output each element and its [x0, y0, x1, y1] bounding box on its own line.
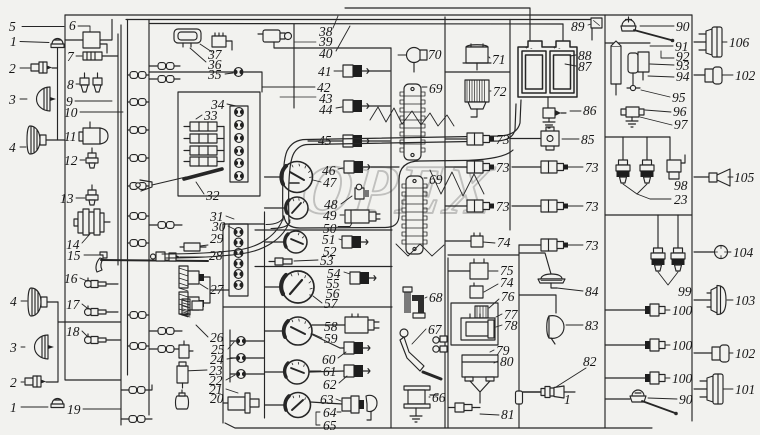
wire foglamp4b [47, 301, 58, 303]
fuse 89 [591, 18, 602, 28]
speedo cable zigzag top [370, 107, 454, 126]
wire center divider x510 [509, 20, 511, 231]
switch 20/21 [223, 393, 259, 413]
lamp 1 bottom [51, 399, 64, 408]
dome lamp 83 [547, 316, 564, 344]
harness curve outer [283, 100, 521, 220]
wire bottom frame [225, 423, 652, 428]
wire right frame [691, 15, 693, 421]
connector 100 c [645, 372, 665, 384]
brake valve 14 [74, 209, 110, 235]
svg-text:82: 82 [583, 354, 597, 369]
connector 81 [448, 403, 480, 412]
wire gauge panel top [223, 223, 265, 225]
connector 73 row2 [467, 161, 494, 173]
connector 48 [355, 184, 369, 199]
wire cluster vertical x515 [518, 255, 520, 391]
connector 60 [344, 342, 370, 354]
svg-text:2: 2 [10, 375, 17, 390]
svg-text:73: 73 [496, 199, 510, 214]
svg-text:5: 5 [9, 19, 16, 34]
switch lever 15 [96, 252, 107, 272]
wire 46 stub [371, 166, 399, 168]
wire gauge row divider y266 [255, 266, 392, 268]
wire lamp4 to trunk [46, 139, 58, 141]
spark plug 27 top [179, 266, 204, 291]
washer pump 66 [404, 386, 438, 422]
harness curve to left panel b [166, 220, 290, 258]
buzzer 95 [627, 85, 640, 90]
svg-text:73: 73 [585, 199, 599, 214]
sensor 18 [85, 334, 107, 344]
wire 45 row [308, 140, 343, 142]
wire trunk x118 [117, 34, 119, 265]
connector strip 34 lamps [235, 108, 244, 181]
sensor 17 [85, 306, 107, 316]
svg-text:8: 8 [67, 77, 74, 92]
gauge 54-57 tachometer [281, 271, 314, 303]
disconnect switch 86 [543, 108, 566, 128]
spark plug 27 bottom [179, 292, 204, 317]
svg-text:98: 98 [674, 178, 688, 193]
flasher 22 [179, 341, 193, 358]
wire right column inner edge [604, 15, 606, 428]
connector strip 27-31 lamps [234, 228, 243, 290]
svg-text:74: 74 [497, 235, 511, 250]
svg-text:97: 97 [674, 117, 689, 132]
washer jar 20 [176, 390, 189, 409]
connector 73 row3 [467, 200, 494, 212]
svg-text:74: 74 [500, 275, 514, 290]
solenoid 98 c [667, 155, 685, 179]
wire trunk x121 [120, 25, 122, 380]
battery 87/88 [518, 41, 577, 97]
svg-text:100: 100 [672, 338, 693, 353]
wire gauge to 58 [312, 324, 345, 326]
connector 2 top [31, 62, 52, 73]
wire sub box line [150, 23, 563, 26]
svg-text:103: 103 [735, 293, 756, 308]
svg-text:3: 3 [8, 92, 16, 107]
wire 40 top [562, 24, 564, 40]
svg-text:95: 95 [672, 90, 686, 105]
wire lamp bus to box [58, 321, 121, 323]
fuel sensor 99 b [671, 248, 685, 271]
svg-text:70: 70 [428, 47, 442, 62]
connector col2 y66 [158, 63, 174, 70]
svg-text:73: 73 [585, 160, 599, 175]
svg-text:11: 11 [64, 129, 77, 144]
gear column 69 bottom [402, 176, 427, 254]
connector 41 [343, 65, 369, 77]
svg-text:69: 69 [429, 81, 443, 96]
valve 8 left [80, 73, 89, 92]
wire conn2 to trunk [52, 67, 58, 69]
indicator lamp 24 [237, 370, 246, 379]
wire gauge feeds [265, 176, 282, 178]
svg-text:90: 90 [676, 19, 690, 34]
svg-text:71: 71 [492, 52, 506, 67]
harness return loop [284, 150, 513, 228]
horn 105 [694, 169, 730, 186]
svg-text:4: 4 [9, 140, 16, 155]
connector trunk y75 [130, 72, 146, 79]
svg-text:3: 3 [9, 340, 17, 355]
fuel tank sender 90 bottom [630, 390, 678, 415]
relay 92 [628, 53, 638, 85]
wire right box top feeds [605, 42, 650, 44]
fuse 29 [180, 243, 206, 251]
svg-text:85: 85 [581, 132, 595, 147]
lamp 102 bottom [694, 345, 729, 362]
valve 8 right [93, 73, 102, 92]
connector 44 [343, 100, 369, 112]
connector 45 [343, 135, 369, 147]
svg-text:89: 89 [571, 19, 585, 34]
headlamp 3 bottom [35, 335, 55, 359]
connector 55/56 [350, 272, 376, 284]
harness curve to left panel a [162, 216, 284, 254]
wire gauge row divider y307 [223, 306, 392, 308]
connector 74 top [471, 233, 483, 247]
svg-text:65: 65 [323, 418, 337, 433]
svg-text:81: 81 [501, 407, 515, 422]
svg-text:1: 1 [564, 392, 571, 407]
wire left frame with elbow [65, 15, 121, 425]
connector 51/52 [342, 236, 368, 248]
fuse row 3 [184, 146, 224, 155]
svg-text:100: 100 [672, 303, 693, 318]
gear column 69 top [400, 84, 425, 160]
wire 90 bottom feed [605, 398, 630, 400]
wire trunk x127.5 [127, 20, 129, 376]
connector 73 right row3 [541, 239, 568, 251]
wire gauge feed bus [264, 212, 266, 418]
relay box 58 [345, 314, 379, 333]
plug 36 [174, 29, 201, 47]
svg-text:23: 23 [674, 192, 688, 207]
fuse row 4 [184, 127, 224, 167]
coil 76 [475, 306, 488, 318]
connector trunk y130 [130, 127, 146, 134]
svg-text:106: 106 [729, 35, 750, 50]
connector 62 [344, 365, 370, 377]
svg-text:66: 66 [432, 390, 446, 405]
resistor 93 [638, 52, 649, 80]
connector trunk y186 [130, 183, 146, 190]
lamp 102 top [694, 67, 722, 84]
svg-text:+ -: + - [553, 45, 560, 52]
wire battery bottom to 86 [547, 97, 549, 108]
svg-text:94: 94 [676, 69, 690, 84]
svg-text:18: 18 [66, 324, 80, 339]
long rod 15 [101, 260, 208, 261]
svg-text:12: 12 [64, 153, 78, 168]
svg-text:73: 73 [585, 238, 599, 253]
gauge 58/59 [284, 317, 312, 345]
horn button 90 top [621, 17, 674, 42]
wire sensor stubs to trunk [106, 283, 118, 285]
wire gauge to 60 [311, 334, 344, 348]
plafond 84 [538, 274, 565, 288]
svg-text:73: 73 [496, 132, 510, 147]
wire trunk x149 [148, 20, 150, 416]
valve 96/97 [621, 107, 644, 127]
connector 73 right row2 [541, 200, 568, 212]
fuse row 2 [184, 134, 224, 143]
connector 46 [344, 161, 370, 173]
svg-text:41: 41 [318, 64, 332, 79]
ignition switch 85 [510, 127, 559, 150]
wire center divider x445 [444, 17, 446, 428]
svg-text:73: 73 [496, 160, 510, 175]
connector 100 b [645, 339, 665, 351]
wire top outer frame [65, 14, 692, 16]
heater fan 72 [465, 80, 489, 117]
svg-text:102: 102 [735, 346, 756, 361]
svg-text:15: 15 [67, 248, 81, 263]
svg-text:47: 47 [323, 175, 338, 190]
svg-text:1: 1 [10, 34, 17, 49]
svg-text:4: 4 [10, 294, 17, 309]
tail lamp 106 [694, 27, 722, 57]
wire plugs 27 join [204, 277, 210, 303]
svg-text:1: 1 [10, 400, 17, 415]
svg-text:101: 101 [735, 382, 755, 397]
lamp 35 [234, 68, 243, 77]
gauge 48/49 [286, 197, 308, 219]
svg-text:87: 87 [578, 59, 593, 74]
connector col2 y79 [158, 76, 174, 83]
svg-text:19: 19 [67, 402, 81, 417]
relay box 6 [65, 20, 112, 54]
fuse row 1 [184, 122, 224, 131]
bottom connector box connector b [129, 416, 145, 423]
connector trunk y315 [130, 312, 146, 319]
pedal 67 [400, 329, 447, 379]
wire 74 top [445, 240, 471, 242]
sensor 16 [85, 278, 107, 288]
svg-text:100: 100 [672, 371, 693, 386]
relay 49 [345, 210, 380, 223]
svg-text:104: 104 [733, 245, 754, 260]
ignition unit 79/80 [462, 355, 498, 403]
headlamp 3 top [37, 87, 57, 111]
heater resistor 75 [448, 259, 488, 279]
wire right column divider y215 [605, 214, 692, 216]
wire branch to 83 [519, 295, 556, 313]
connector strip 27-31 box [229, 224, 248, 296]
svg-text:13: 13 [60, 191, 74, 206]
svg-text:83: 83 [585, 318, 599, 333]
relay 37 [212, 33, 232, 50]
wire gauge to 62 [309, 371, 344, 372]
connector strip 34 box [230, 106, 248, 182]
motor 71 [463, 44, 491, 70]
foglamp 4 bottom [28, 288, 47, 316]
wire gauge to 63 [311, 402, 343, 404]
wire 99 bus [657, 215, 659, 248]
connector trunk y346 [130, 343, 146, 350]
svg-text:78: 78 [504, 318, 518, 333]
wire branch to 84 [519, 253, 551, 274]
lamp 1 top [51, 39, 64, 48]
gauge 61 [285, 360, 309, 384]
gauge 50/51/52 [285, 231, 307, 253]
svg-text:+ -: + - [525, 45, 532, 52]
bottom connector box connector a [129, 387, 145, 394]
wiper fork 32 [136, 180, 152, 191]
wire 38 top [345, 8, 530, 40]
svg-text:44: 44 [319, 102, 333, 117]
side lamp 103 [694, 286, 726, 315]
connector trunk y216 [130, 213, 146, 220]
connector 73 right row1 [541, 161, 568, 173]
wire lamp1 drop [58, 48, 66, 140]
connector 74 bottom [470, 283, 483, 298]
svg-text:57: 57 [324, 296, 339, 311]
connector trunk y158 [130, 155, 146, 162]
connector col2 y349 [158, 346, 174, 353]
lamp box vertical [229, 330, 231, 382]
wire 44 stub [369, 105, 390, 107]
connector 7 [83, 52, 118, 60]
connector col2 y225 [158, 222, 174, 229]
sensor 70 [407, 48, 428, 73]
svg-text:16: 16 [64, 271, 78, 286]
svg-text:67: 67 [428, 322, 443, 337]
connector 100 a [645, 304, 665, 316]
speedo cable zigzag bottom [396, 244, 444, 256]
svg-text:68: 68 [429, 290, 443, 305]
wire conn2b [46, 381, 58, 383]
gauge 63/64 [285, 393, 310, 418]
relay box 77/78 frame [451, 303, 498, 345]
sensor 13 [86, 185, 98, 205]
valve 28 pair [151, 252, 181, 261]
svg-text:102: 102 [735, 68, 756, 83]
flame plug 98 a [616, 160, 630, 183]
connector trunk y102 [130, 99, 146, 106]
sensor 12 [86, 148, 98, 168]
svg-text:10: 10 [64, 105, 78, 120]
svg-text:86: 86 [583, 103, 597, 118]
flame plug 98 b [640, 160, 654, 183]
wire box conn stubs [121, 389, 129, 391]
wire gauge row divider y230 [255, 229, 392, 231]
svg-text:69: 69 [429, 172, 443, 187]
wire gauge panel left edge [222, 224, 224, 423]
gauge 46/47 speedometer [281, 162, 312, 193]
svg-text:2: 2 [9, 61, 16, 76]
svg-text:84: 84 [585, 284, 599, 299]
starter relay 77/78 [461, 314, 495, 340]
svg-text:90: 90 [679, 392, 693, 407]
wire right column divider y136 [605, 136, 670, 138]
svg-text:35: 35 [207, 67, 222, 82]
wire lamps to bus [230, 340, 237, 342]
wiper arm 32 [152, 177, 186, 185]
svg-text:29: 29 [210, 231, 224, 246]
spring connector 23 upper [182, 299, 203, 317]
connector col2 y331 [158, 328, 174, 335]
wire bottom lamp bus [57, 302, 59, 382]
svg-text:105: 105 [734, 170, 755, 185]
tail lamp 101 [694, 374, 723, 404]
wire 63 sensor ground [367, 419, 371, 421]
glow plug 82 [523, 386, 575, 398]
sensor 63 speed [342, 395, 377, 420]
motor 38 [258, 30, 391, 48]
stoplight switch 68 [403, 287, 425, 318]
connector 73 row1 [467, 133, 494, 145]
svg-text:62: 62 [323, 377, 337, 392]
fuse box frame [178, 92, 260, 196]
svg-text:72: 72 [493, 84, 507, 99]
wire 98 bus [622, 137, 624, 160]
cylinder 22/23 [177, 362, 188, 388]
cluster box left edge [447, 258, 449, 428]
indicator lamp 26 [237, 337, 246, 346]
svg-text:76: 76 [501, 289, 515, 304]
wire inner top frame [126, 19, 592, 21]
svg-text:33: 33 [203, 108, 218, 123]
svg-text:99: 99 [678, 284, 692, 299]
wire center box left edge [390, 48, 392, 428]
inline fuse on x515 [516, 391, 523, 404]
wiper blade 32 [184, 169, 222, 179]
connector 53 [269, 258, 292, 265]
relay 91 [611, 41, 621, 95]
foglamp 4 top [27, 126, 46, 154]
svg-text:32: 32 [205, 188, 220, 203]
wire fuse 89 drop [591, 20, 593, 41]
watermark OREX light gray [298, 151, 498, 229]
indicator lamp 25 [237, 354, 246, 363]
motor 11 [79, 122, 108, 144]
svg-text:80: 80 [500, 354, 514, 369]
connector trunk y243 [130, 240, 146, 247]
fuel sensor 99 a [651, 248, 665, 271]
svg-text:20: 20 [210, 391, 224, 406]
speedo cable zigzag right [430, 170, 484, 196]
svg-text:17: 17 [66, 297, 81, 312]
wire lamp35 row [149, 71, 234, 73]
svg-text:40: 40 [319, 46, 333, 61]
sensor 104 [694, 246, 728, 259]
harness curve inner [289, 104, 516, 222]
connector 2 bottom [25, 376, 46, 387]
svg-text:6: 6 [69, 18, 76, 33]
